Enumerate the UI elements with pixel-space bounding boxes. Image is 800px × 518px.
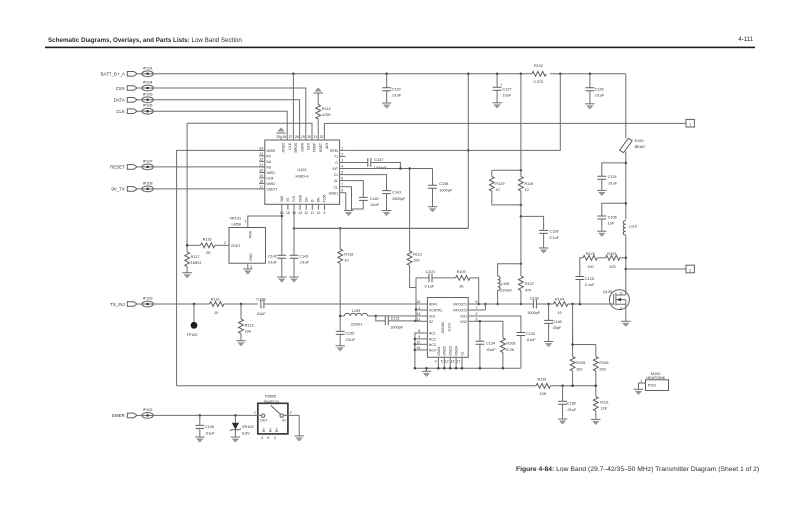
svg-text:R111: R111	[600, 400, 609, 404]
svg-text:8: 8	[341, 189, 343, 193]
junction BATT/C127	[496, 73, 499, 76]
junction C148 tap	[547, 303, 550, 306]
svg-text:10: 10	[558, 311, 562, 315]
svg-text:VL: VL	[334, 179, 338, 183]
svg-text:8.2K: 8.2K	[506, 348, 514, 352]
svg-text:7: 7	[341, 183, 343, 187]
svg-text:3: 3	[341, 159, 343, 163]
svg-text:10K: 10K	[540, 392, 547, 396]
svg-text:NC3: NC3	[429, 343, 436, 347]
U101 left pin 9 NC2	[418, 335, 435, 342]
svg-text:20: 20	[259, 168, 263, 172]
junction C134 tap	[479, 320, 482, 323]
svg-text:LM50: LM50	[232, 223, 242, 227]
svg-text:H99D-4: H99D-4	[295, 174, 308, 178]
svg-text:O: O	[311, 199, 315, 202]
svg-text:2: 2	[341, 152, 343, 156]
U102 top pin 32 AIO	[320, 135, 329, 149]
svg-text:6: 6	[476, 300, 478, 304]
junction BATT/BPOS	[292, 73, 295, 76]
U102 left pin 17 VSEXT	[259, 185, 277, 192]
U101 NC bus	[414, 333, 422, 368]
U102 top pin 26 CLK	[282, 135, 291, 149]
wire VG1 line to C132	[474, 316, 521, 333]
junction rail228/R118	[339, 227, 342, 230]
switch P9505 box	[258, 395, 288, 434]
svg-text:.01uF: .01uF	[370, 203, 380, 207]
U102 right pin 7 CL	[334, 183, 346, 190]
junction L108/R107 split	[520, 262, 523, 265]
svg-text:Figure 4-84: Low Band (29.7–42: Figure 4-84: Low Band (29.7–42/35–50 MHz…	[516, 466, 759, 473]
svg-text:0.375: 0.375	[534, 80, 544, 84]
junction vert468/subrail	[467, 149, 470, 152]
svg-text:VG2: VG2	[460, 320, 467, 324]
svg-text:C130: C130	[530, 296, 539, 300]
svg-text:R105: R105	[576, 361, 585, 365]
junction pin16/VR101 POS line	[281, 215, 284, 218]
svg-text:10uF: 10uF	[503, 94, 512, 98]
svg-text:VAR2: VAR2	[266, 182, 275, 186]
svg-text:.01uF: .01uF	[267, 261, 277, 265]
svg-text:21: 21	[259, 163, 263, 167]
wire L109 junction to VD1 pin	[376, 315, 422, 317]
svg-text:VLM: VLM	[266, 177, 273, 181]
svg-text:AIO: AIO	[325, 143, 329, 149]
wire bottom feedback rail	[177, 385, 536, 387]
U101 left pin 8 NC1	[418, 329, 435, 336]
svg-text:14: 14	[417, 312, 421, 316]
svg-text:GND4: GND4	[455, 346, 459, 356]
wire R119 column vertical	[520, 74, 522, 264]
svg-text:15: 15	[286, 211, 290, 215]
svg-text:29: 29	[301, 135, 305, 139]
svg-text:5: 5	[441, 359, 443, 363]
svg-text:R110: R110	[538, 378, 547, 382]
svg-text:GND3: GND3	[449, 346, 453, 356]
inductor L110	[623, 221, 637, 290]
capacitor C127 polarized	[492, 74, 511, 108]
junction drain feed/R103	[625, 257, 628, 260]
wire VCNTRL vertical x416	[415, 278, 417, 321]
svg-text:V19: V19	[292, 196, 296, 202]
svg-text:B+: B+	[275, 428, 279, 432]
svg-text:6.8V: 6.8V	[242, 432, 250, 436]
U101 left pin 1 VCNTRL	[418, 306, 442, 313]
svg-text:C134: C134	[486, 342, 495, 346]
junction RFOUT2 join	[484, 303, 487, 306]
input port 9V_TX IP108	[111, 181, 153, 191]
svg-text:IP101: IP101	[143, 66, 153, 70]
svg-text:IP106: IP106	[143, 104, 153, 108]
svg-text:2: 2	[224, 241, 226, 245]
capacitor C103 0.1uF feedback	[416, 270, 456, 289]
svg-text:RFIN: RFIN	[429, 303, 437, 307]
wire R129/R119 bottom join	[492, 204, 521, 206]
svg-text:VR102: VR102	[242, 425, 254, 429]
U101 right pin 2 VG1	[460, 312, 477, 319]
svg-text:VSEXT: VSEXT	[266, 188, 277, 192]
resistor R114 47OK with ground above	[314, 88, 332, 140]
svg-text:9V_TX: 9V_TX	[111, 187, 124, 192]
U102 right pin 6 VL	[334, 177, 346, 184]
svg-text:R102: R102	[534, 64, 543, 68]
svg-text:C129: C129	[392, 87, 401, 91]
svg-text:12: 12	[445, 359, 449, 363]
wire battery vertical x468	[294, 74, 468, 229]
offpage connector 2	[686, 265, 694, 273]
svg-text:30C85: 30C85	[441, 322, 445, 333]
wire VR101 POS feed	[248, 216, 282, 228]
svg-text:INT: INT	[333, 167, 338, 171]
resistor R112 100	[407, 169, 422, 288]
svg-text:2: 2	[290, 411, 292, 415]
svg-text:100: 100	[587, 265, 593, 269]
svg-text:5: 5	[267, 436, 269, 440]
junction INT/R112	[408, 167, 411, 170]
svg-text:9: 9	[324, 211, 326, 215]
ground U101 bus	[422, 367, 431, 377]
svg-text:IP107: IP107	[143, 159, 153, 163]
svg-text:3300pF: 3300pF	[392, 197, 406, 201]
svg-text:R114: R114	[322, 107, 331, 111]
svg-text:RSET: RSET	[319, 143, 323, 152]
zener diode VR102 6.8V	[230, 415, 254, 442]
junction R105 top	[571, 343, 574, 346]
resistor R116 2K	[187, 237, 223, 255]
ferrite bead E100	[620, 74, 646, 153]
svg-text:10: 10	[344, 259, 348, 263]
svg-text:.01uF: .01uF	[567, 408, 577, 412]
svg-text:26: 26	[282, 135, 286, 139]
svg-text:30pF: 30pF	[553, 326, 562, 330]
junction L108/RF line	[496, 303, 499, 306]
svg-text:RFIN: RFIN	[330, 149, 338, 153]
capacitor C136	[558, 386, 577, 425]
U102 right pin 1 RFIN	[330, 146, 345, 153]
resistor R108 8.2K	[501, 338, 516, 369]
U102 top pin 29 CEX	[301, 135, 310, 150]
svg-text:R129: R129	[495, 182, 504, 186]
svg-text:10: 10	[525, 188, 529, 192]
wire RF line to U101 RFIN	[264, 303, 422, 305]
capacitor C148 30pF	[544, 304, 562, 347]
wire battery vertical x560 to RFIN subrail	[345, 74, 560, 151]
svg-text:U101: U101	[448, 322, 452, 331]
svg-text:3: 3	[250, 265, 252, 269]
heatsink M100 box	[646, 372, 669, 390]
wire BPOS vertical	[292, 74, 294, 140]
U102 top pin 27 BPOS	[289, 135, 298, 152]
svg-text:Schematic Diagrams, Overlays,: Schematic Diagrams, Overlays, and Parts …	[48, 37, 242, 44]
resistor R129 10	[489, 170, 504, 205]
svg-text:11: 11	[417, 317, 421, 321]
VR101 pin2 VOUT stub	[223, 241, 229, 246]
svg-text:C125: C125	[585, 277, 594, 281]
input port EMER IP102	[112, 408, 153, 418]
svg-text:470K: 470K	[322, 113, 331, 117]
svg-text:R103: R103	[607, 252, 616, 256]
svg-text:CLK: CLK	[116, 109, 125, 114]
wire gate bias column	[573, 304, 596, 345]
svg-text:CEX: CEX	[307, 142, 311, 150]
svg-text:GND1: GND1	[437, 346, 441, 356]
voltage regulator VR101 LM50 box	[229, 217, 266, 264]
svg-text:10: 10	[417, 340, 421, 344]
capacitor C143 under pin14	[289, 210, 309, 282]
svg-text:2: 2	[476, 312, 478, 316]
wire VAR3 subrail left	[177, 150, 265, 385]
svg-text:POS: POS	[648, 384, 656, 388]
wire to offpage 2	[626, 268, 686, 270]
capacitor C139 series	[256, 297, 266, 316]
junction BATT/vert468	[467, 73, 470, 76]
U101 right pin 3 VG2	[460, 317, 477, 324]
svg-text:C140: C140	[370, 197, 379, 201]
svg-text:32: 32	[320, 135, 324, 139]
junction feedback/RFOUT	[477, 303, 480, 306]
wire TEMP vertical to R117 node	[186, 123, 188, 252]
svg-text:22: 22	[259, 157, 263, 161]
junction S2 line	[414, 320, 417, 323]
M100 pin1 to ground	[634, 379, 646, 395]
svg-text:F166: F166	[323, 194, 327, 202]
svg-text:1000pF: 1000pF	[374, 166, 388, 170]
svg-text:NC1: NC1	[429, 332, 436, 336]
svg-text:.01uF: .01uF	[205, 432, 215, 436]
U102 left pin 21 RS	[259, 163, 272, 170]
inductor L108 220nH	[498, 264, 521, 304]
svg-text:VAR3: VAR3	[266, 149, 275, 153]
wire AIO rail to offpage 1	[324, 123, 686, 140]
svg-text:R109: R109	[457, 270, 466, 274]
junction TP100 tap	[193, 303, 196, 306]
svg-text:0.1uF: 0.1uF	[585, 283, 595, 287]
junction C128 tap	[520, 215, 523, 218]
svg-text:4: 4	[435, 359, 437, 363]
U101 ground bus	[415, 367, 521, 369]
svg-text:R118: R118	[344, 252, 353, 256]
junction R119 bottom	[520, 204, 523, 207]
svg-text:1000pF: 1000pF	[527, 311, 541, 315]
U101 left pin 11 S2	[417, 317, 433, 324]
svg-text:GK: GK	[317, 197, 321, 203]
svg-text:DATA: DATA	[114, 98, 125, 103]
U102 left pin 19 VLM	[259, 174, 273, 181]
svg-text:POS: POS	[249, 230, 253, 238]
op-amp U102 box	[265, 140, 340, 204]
svg-text:R115: R115	[211, 298, 220, 302]
svg-text:200: 200	[576, 367, 582, 371]
svg-text:4: 4	[261, 436, 263, 440]
wire RFOUT2 join vertical	[484, 304, 486, 310]
svg-text:1: 1	[689, 123, 691, 127]
wire BATT rail	[153, 73, 532, 75]
svg-text:TX_INJ: TX_INJ	[110, 302, 125, 307]
wire EMER row	[153, 414, 252, 416]
transistor Q100 MOSFET	[603, 290, 631, 327]
svg-text:R117: R117	[191, 255, 200, 259]
svg-text:17: 17	[457, 359, 461, 363]
svg-text:CSX: CSX	[116, 86, 125, 91]
U102 right pin 8 GND1	[329, 189, 346, 196]
svg-text:GND1: GND1	[329, 191, 339, 195]
capacitor C125 0.1uF	[575, 277, 595, 305]
svg-text:28: 28	[295, 135, 299, 139]
svg-text:GND2: GND2	[443, 346, 447, 356]
resistor R105 200	[570, 330, 585, 386]
capacitor C134	[476, 321, 497, 369]
svg-text:.01uF: .01uF	[345, 338, 355, 342]
svg-text:C148: C148	[553, 320, 562, 324]
svg-text:C143: C143	[299, 254, 308, 258]
resistor R119 10	[519, 177, 534, 193]
svg-text:1K: 1K	[459, 284, 464, 288]
svg-text:R113: R113	[245, 323, 254, 327]
wire VG2 line to R108	[474, 321, 503, 338]
svg-text:VAR1: VAR1	[266, 171, 275, 175]
svg-text:R119: R119	[525, 182, 534, 186]
U102 right pin 5 CJ	[334, 171, 346, 178]
svg-text:23: 23	[259, 152, 263, 156]
svg-text:R104: R104	[555, 297, 564, 301]
svg-text:6: 6	[341, 177, 343, 181]
U102 bottom pins 16..9 stubs and numbers	[280, 204, 326, 215]
junction gate bias tap	[571, 303, 574, 306]
resistor R110 10K	[536, 378, 596, 396]
svg-text:470: 470	[525, 288, 531, 292]
svg-text:VCNTRL: VCNTRL	[429, 309, 443, 313]
svg-text:1: 1	[418, 306, 420, 310]
svg-text:1000pF: 1000pF	[390, 326, 404, 330]
U102 top pin 31 RSET	[313, 135, 322, 152]
capacitor C130 1000pF series	[527, 296, 553, 314]
svg-text:10: 10	[214, 311, 218, 315]
svg-text:12: 12	[304, 211, 308, 215]
svg-text:C149: C149	[205, 425, 214, 429]
switch pin1 OUT	[252, 411, 268, 423]
svg-text:16: 16	[417, 300, 421, 304]
resistor R113 100	[236, 304, 253, 346]
svg-text:IP103: IP103	[143, 297, 153, 301]
svg-text:2: 2	[689, 268, 691, 272]
svg-text:C138: C138	[439, 182, 448, 186]
svg-text:GND2: GND2	[282, 143, 286, 153]
svg-text:8: 8	[418, 329, 420, 333]
junction R106 bottom	[595, 385, 598, 388]
svg-text:0.1uF: 0.1uF	[549, 236, 559, 240]
svg-text:SWITCH: SWITCH	[264, 400, 279, 404]
svg-text:P9505: P9505	[265, 395, 276, 399]
svg-text:C142: C142	[268, 254, 277, 258]
resistor R111 12K	[591, 397, 609, 425]
svg-text:200: 200	[599, 367, 605, 371]
capacitor C137 on pin3 line	[345, 158, 400, 170]
U102 right pin 3 O	[335, 159, 345, 166]
wire BATT rail right of R102	[550, 73, 626, 75]
svg-text:12K: 12K	[600, 407, 607, 411]
svg-text:1: 1	[245, 220, 247, 224]
resistor R102	[532, 64, 546, 84]
junction VCNTRL stub	[415, 308, 418, 311]
input port BATT_B+_A IP101	[101, 66, 154, 76]
svg-text:CLK: CLK	[288, 142, 292, 149]
U102 left pin 22 NA	[259, 157, 272, 164]
resistor R118 10	[338, 228, 353, 331]
wire INT rail pin4	[345, 168, 432, 170]
junction L109 tap	[339, 315, 342, 318]
svg-text:100: 100	[609, 265, 615, 269]
resistor R107 470	[519, 264, 534, 304]
capacitor C126	[585, 74, 605, 109]
svg-text:2K: 2K	[206, 251, 211, 255]
U102 bottom pin labels rotated	[280, 194, 327, 202]
switch pin2 IN and lever	[271, 405, 300, 422]
wire CSX row	[153, 88, 305, 140]
junction C149 tap	[199, 414, 202, 417]
svg-text:.01uF: .01uF	[608, 181, 618, 185]
U101 right pin 6 RFOUT1	[453, 300, 477, 307]
resistor R120 100	[580, 252, 598, 277]
offpage connector 1	[686, 119, 694, 127]
wire battery rail y228	[294, 227, 468, 229]
junction VR102 tap	[234, 414, 237, 417]
junction BATT/C129	[385, 73, 388, 76]
svg-text:4-111: 4-111	[738, 36, 753, 43]
svg-text:25: 25	[276, 135, 280, 139]
wire RESET row	[153, 166, 264, 168]
svg-text:HEATSINK: HEATSINK	[646, 376, 665, 380]
switch pin2 wire to ground	[295, 415, 304, 441]
junction R107/RF line	[520, 303, 523, 306]
resistor R103 100	[597, 252, 625, 269]
svg-text:CG: CG	[304, 197, 308, 202]
svg-text:11: 11	[311, 211, 315, 215]
input port DATA IP105	[114, 92, 154, 102]
svg-text:220nH: 220nH	[351, 322, 362, 326]
svg-text:BEAD: BEAD	[635, 145, 646, 149]
svg-text:RS: RS	[266, 166, 271, 170]
wire 9V_TX row	[153, 188, 264, 190]
svg-text:TP100: TP100	[186, 333, 197, 337]
junction C136 tap	[561, 385, 564, 388]
svg-text:VG1: VG1	[460, 315, 467, 319]
input port CSX IP104	[116, 81, 154, 91]
svg-text:.01uF: .01uF	[595, 94, 605, 98]
wire TX_INJ line	[153, 303, 209, 305]
svg-text:IP108: IP108	[143, 181, 153, 185]
svg-text:L108: L108	[501, 282, 509, 286]
wire S2 stub	[416, 320, 422, 322]
svg-text:31: 31	[313, 135, 317, 139]
svg-text:NA: NA	[266, 160, 271, 164]
svg-text:30: 30	[307, 135, 311, 139]
svg-text:C132: C132	[526, 332, 535, 336]
svg-text:13: 13	[298, 211, 302, 215]
svg-text:OUT: OUT	[260, 419, 267, 423]
svg-text:R108: R108	[506, 342, 515, 346]
input port TX_INJ IP103	[110, 297, 153, 307]
svg-text:T1: T1	[334, 155, 338, 159]
resistor R109 1K feedback	[456, 270, 479, 304]
svg-text:17: 17	[259, 185, 263, 189]
svg-text:19: 19	[259, 174, 263, 178]
U102 left pin 23 RX	[259, 152, 272, 159]
U101 left pin 15 NC4	[417, 346, 436, 353]
svg-text:VS: VS	[286, 197, 290, 202]
svg-text:S1: S1	[460, 351, 464, 355]
resistor R115 10	[210, 298, 259, 315]
wire TEMP rail	[187, 123, 312, 140]
